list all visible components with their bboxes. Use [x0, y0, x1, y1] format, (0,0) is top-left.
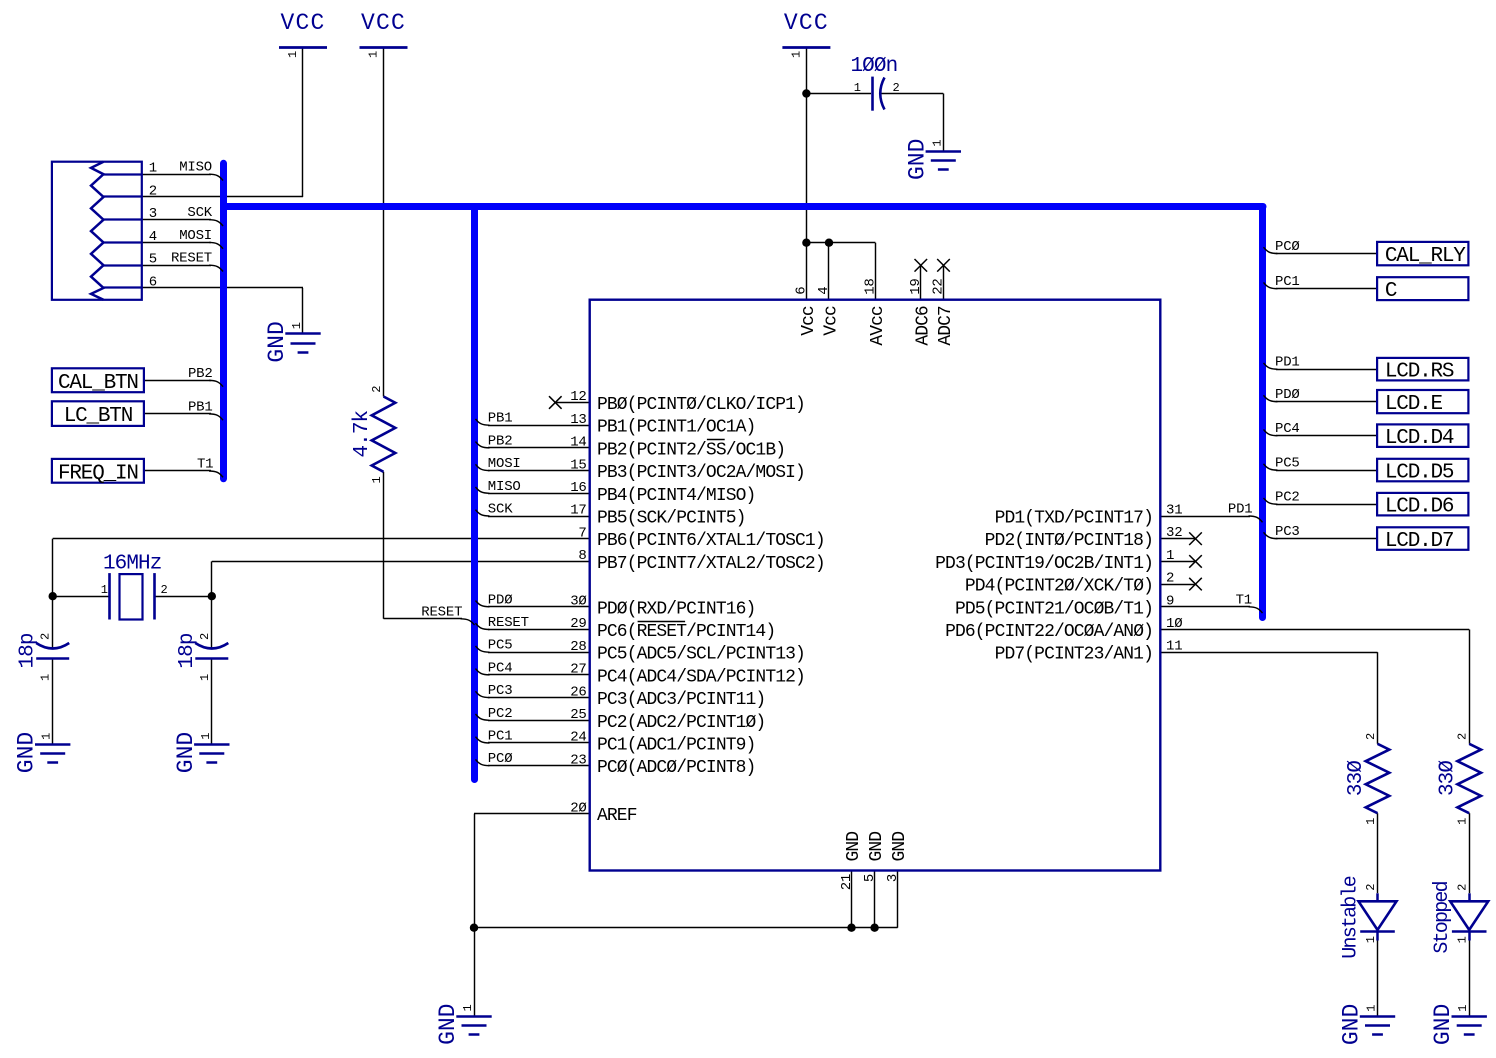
svg-text:Vcc: Vcc: [822, 306, 842, 336]
svg-text:PC4(ADC4/SDA/PCINT12): PC4(ADC4/SDA/PCINT12): [597, 667, 805, 687]
svg-text:1: 1: [367, 51, 381, 58]
svg-text:GND: GND: [844, 832, 864, 862]
svg-text:PB1: PB1: [488, 411, 513, 427]
svg-text:PC2: PC2: [488, 706, 513, 722]
svg-text:PD1: PD1: [1228, 502, 1253, 518]
svg-text:SCK: SCK: [187, 205, 212, 221]
svg-text:PB6(PCINT6/XTAL1/TOSC1): PB6(PCINT6/XTAL1/TOSC1): [597, 531, 825, 551]
svg-text:17: 17: [570, 503, 586, 519]
svg-text:1: 1: [854, 81, 861, 95]
svg-text:PC5: PC5: [488, 638, 513, 654]
svg-text:T1: T1: [1236, 592, 1252, 608]
svg-text:LCD.E: LCD.E: [1385, 393, 1443, 416]
svg-text:PD2(INTØ/PCINT18): PD2(INTØ/PCINT18): [985, 531, 1153, 551]
svg-text:PD6(PCINT22/OCØA/ANØ): PD6(PCINT22/OCØA/ANØ): [945, 622, 1153, 642]
svg-text:2: 2: [1456, 884, 1470, 891]
svg-text:PD3(PCINT19/OC2B/INT1): PD3(PCINT19/OC2B/INT1): [935, 554, 1153, 574]
svg-text:16MHz: 16MHz: [103, 553, 162, 576]
svg-text:2: 2: [39, 633, 53, 640]
svg-text:GND: GND: [1339, 1004, 1365, 1045]
svg-text:1: 1: [1166, 548, 1174, 564]
svg-text:6: 6: [793, 287, 809, 295]
svg-text:PDØ(RXD/PCINT16): PDØ(RXD/PCINT16): [597, 599, 755, 619]
svg-text:VCC: VCC: [361, 10, 406, 36]
svg-text:1: 1: [930, 139, 944, 146]
svg-text:24: 24: [570, 730, 586, 746]
svg-text:PC1: PC1: [1275, 274, 1300, 290]
svg-text:23: 23: [570, 752, 586, 768]
svg-text:PBØ(PCINTØ/CLKO/ICP1): PBØ(PCINTØ/CLKO/ICP1): [597, 395, 805, 415]
svg-text:2: 2: [1364, 884, 1378, 891]
svg-text:PC5: PC5: [1275, 456, 1300, 472]
svg-text:3: 3: [885, 874, 901, 882]
svg-text:PC5(ADC5/SCL/PCINT13): PC5(ADC5/SCL/PCINT13): [597, 645, 805, 665]
svg-text:1: 1: [199, 733, 213, 740]
svg-text:5: 5: [862, 874, 878, 882]
svg-text:4: 4: [149, 229, 157, 245]
svg-text:1: 1: [149, 161, 157, 177]
svg-text:SCK: SCK: [488, 502, 513, 518]
svg-text:1: 1: [370, 476, 384, 483]
svg-text:RESET: RESET: [421, 604, 462, 620]
svg-text:1: 1: [789, 51, 803, 58]
svg-text:2: 2: [893, 81, 900, 95]
svg-text:1: 1: [1456, 1004, 1470, 1011]
svg-text:PB1: PB1: [188, 399, 213, 415]
svg-text:33Ø: 33Ø: [1437, 761, 1460, 796]
svg-text:LCD.D7: LCD.D7: [1385, 530, 1453, 553]
svg-text:19: 19: [908, 278, 924, 294]
svg-text:LC_BTN: LC_BTN: [64, 405, 132, 428]
svg-text:GND: GND: [904, 139, 930, 180]
svg-text:PC3: PC3: [488, 683, 513, 699]
svg-text:16: 16: [570, 480, 586, 496]
svg-text:1: 1: [1456, 818, 1470, 825]
svg-text:6: 6: [149, 274, 157, 290]
svg-text:PC1: PC1: [488, 729, 513, 745]
svg-text:PC4: PC4: [488, 660, 513, 676]
svg-text:5: 5: [149, 252, 157, 268]
svg-text:GND: GND: [1430, 1004, 1456, 1045]
svg-text:2: 2: [1456, 733, 1470, 740]
svg-text:AVcc: AVcc: [868, 306, 888, 346]
svg-text:GND: GND: [867, 832, 887, 862]
svg-text:PB7(PCINT7/XTAL2/TOSC2): PB7(PCINT7/XTAL2/TOSC2): [597, 554, 825, 574]
svg-text:1: 1: [286, 51, 300, 58]
svg-text:RESET: RESET: [171, 251, 212, 267]
svg-text:1: 1: [1365, 1004, 1379, 1011]
svg-text:2: 2: [161, 583, 168, 597]
svg-text:Unstable: Unstable: [1340, 876, 1363, 958]
svg-text:CAL_RLY: CAL_RLY: [1385, 245, 1466, 268]
svg-text:PCØ: PCØ: [488, 751, 513, 767]
svg-text:C: C: [1385, 280, 1397, 303]
svg-text:MOSI: MOSI: [179, 228, 212, 244]
svg-text:PCØ: PCØ: [1275, 239, 1300, 255]
svg-text:33Ø: 33Ø: [1345, 761, 1368, 796]
svg-text:PC6(RESET/PCINT14): PC6(RESET/PCINT14): [597, 622, 775, 642]
svg-text:22: 22: [931, 278, 947, 294]
svg-text:1: 1: [1364, 818, 1378, 825]
svg-text:31: 31: [1166, 503, 1182, 519]
svg-text:18p: 18p: [176, 633, 199, 668]
svg-text:GND: GND: [890, 832, 910, 862]
svg-text:PDØ: PDØ: [1275, 387, 1300, 403]
svg-text:12: 12: [570, 389, 586, 405]
svg-text:PC1(ADC1/PCINT9): PC1(ADC1/PCINT9): [597, 736, 755, 756]
svg-text:2: 2: [370, 385, 384, 392]
svg-text:29: 29: [570, 616, 586, 632]
svg-text:1ØØn: 1ØØn: [850, 55, 897, 78]
svg-text:3Ø: 3Ø: [570, 594, 586, 610]
svg-text:18p: 18p: [17, 633, 40, 668]
svg-text:2: 2: [1364, 733, 1378, 740]
svg-text:26: 26: [570, 684, 586, 700]
svg-text:PB4(PCINT4/MISO): PB4(PCINT4/MISO): [597, 486, 755, 506]
svg-text:1: 1: [1456, 936, 1470, 943]
svg-text:CAL_BTN: CAL_BTN: [58, 372, 138, 395]
svg-text:1: 1: [101, 583, 108, 597]
svg-text:ADC7: ADC7: [936, 306, 956, 346]
svg-text:PDØ: PDØ: [488, 592, 513, 608]
svg-text:27: 27: [570, 662, 586, 678]
svg-text:8: 8: [578, 548, 586, 564]
svg-text:PB1(PCINT1/OC1A): PB1(PCINT1/OC1A): [597, 418, 755, 438]
svg-text:PD1(TXD/PCINT17): PD1(TXD/PCINT17): [995, 509, 1153, 529]
svg-text:14: 14: [570, 435, 586, 451]
svg-text:2: 2: [149, 183, 157, 199]
svg-text:AREF: AREF: [597, 806, 637, 826]
svg-text:2: 2: [1166, 571, 1174, 587]
svg-text:GND: GND: [435, 1003, 461, 1044]
svg-text:1: 1: [198, 674, 212, 681]
svg-text:PD7(PCINT23/AN1): PD7(PCINT23/AN1): [995, 645, 1153, 665]
svg-text:25: 25: [570, 707, 586, 723]
svg-text:PB2: PB2: [488, 433, 513, 449]
svg-text:21: 21: [839, 874, 855, 890]
svg-text:ADC6: ADC6: [913, 306, 933, 346]
svg-text:MOSI: MOSI: [488, 456, 521, 472]
svg-text:1: 1: [290, 322, 304, 329]
svg-text:1: 1: [40, 733, 54, 740]
svg-text:PB2: PB2: [188, 366, 213, 382]
svg-text:PC3: PC3: [1275, 524, 1300, 540]
svg-text:1Ø: 1Ø: [1166, 616, 1182, 632]
svg-text:2: 2: [198, 633, 212, 640]
svg-text:GND: GND: [14, 732, 40, 773]
svg-text:18: 18: [862, 278, 878, 294]
svg-text:PD1: PD1: [1275, 355, 1300, 371]
svg-text:PD5(PCINT21/OCØB/T1): PD5(PCINT21/OCØB/T1): [955, 599, 1153, 619]
svg-text:1: 1: [461, 1004, 475, 1011]
svg-text:PB3(PCINT3/OC2A/MOSI): PB3(PCINT3/OC2A/MOSI): [597, 463, 805, 483]
svg-text:PB2(PCINT2/SS/OC1B): PB2(PCINT2/SS/OC1B): [597, 440, 785, 460]
svg-text:PC2: PC2: [1275, 490, 1300, 506]
svg-text:LCD.D5: LCD.D5: [1385, 462, 1454, 485]
svg-text:LCD.D4: LCD.D4: [1385, 427, 1454, 450]
svg-text:PC3(ADC3/PCINT11): PC3(ADC3/PCINT11): [597, 690, 765, 710]
svg-text:Stopped: Stopped: [1431, 881, 1454, 953]
svg-text:T1: T1: [197, 457, 213, 473]
svg-text:LCD.D6: LCD.D6: [1385, 496, 1454, 519]
svg-text:VCC: VCC: [784, 10, 829, 36]
svg-text:28: 28: [570, 639, 586, 655]
svg-text:13: 13: [570, 412, 586, 428]
svg-text:1: 1: [1364, 936, 1378, 943]
svg-text:PCØ(ADCØ/PCINT8): PCØ(ADCØ/PCINT8): [597, 758, 755, 778]
svg-text:4.7k: 4.7k: [351, 410, 374, 457]
svg-text:4: 4: [816, 287, 832, 295]
svg-text:2Ø: 2Ø: [570, 800, 586, 816]
svg-text:15: 15: [570, 457, 586, 473]
svg-text:32: 32: [1166, 525, 1182, 541]
svg-text:MISO: MISO: [488, 479, 521, 495]
svg-text:GND: GND: [173, 732, 199, 773]
svg-text:FREQ_IN: FREQ_IN: [58, 462, 138, 485]
svg-text:MISO: MISO: [179, 160, 212, 176]
svg-text:Vcc: Vcc: [799, 306, 819, 336]
svg-text:11: 11: [1166, 639, 1182, 655]
svg-text:GND: GND: [264, 321, 290, 362]
svg-text:PC2(ADC2/PCINT1Ø): PC2(ADC2/PCINT1Ø): [597, 713, 765, 733]
svg-text:3: 3: [149, 206, 157, 222]
svg-text:7: 7: [578, 525, 586, 541]
svg-text:1: 1: [39, 674, 53, 681]
svg-text:LCD.RS: LCD.RS: [1385, 361, 1454, 384]
svg-text:RESET: RESET: [488, 615, 529, 631]
svg-text:PC4: PC4: [1275, 421, 1300, 437]
svg-text:PB5(SCK/PCINT5): PB5(SCK/PCINT5): [597, 509, 746, 529]
svg-text:9: 9: [1166, 593, 1174, 609]
svg-text:VCC: VCC: [280, 10, 325, 36]
svg-text:PD4(PCINT2Ø/XCK/TØ): PD4(PCINT2Ø/XCK/TØ): [965, 577, 1153, 597]
